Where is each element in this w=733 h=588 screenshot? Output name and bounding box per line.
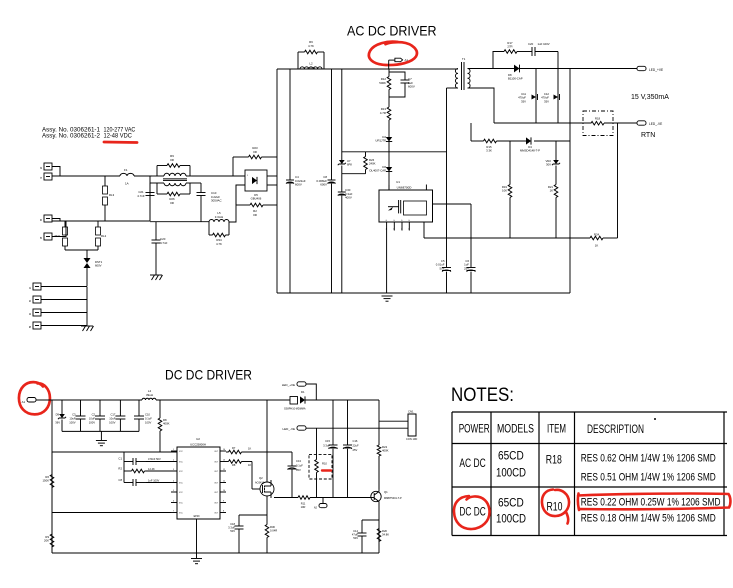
svg-text:MODELS: MODELS: [497, 424, 534, 436]
wire bottom rail: [52, 552, 379, 554]
svg-text:RV1: RV1: [55, 234, 61, 238]
svg-text:ITEM: ITEM: [547, 424, 566, 436]
wire top rail: [277, 68, 458, 70]
wire vertical x342: [341, 69, 343, 160]
wire led- line: [306, 427, 408, 429]
resistor R2 12.4K: [123, 462, 125, 472]
svg-text:UCC25800H: UCC25800H: [190, 443, 206, 447]
capacitor C18 3.3uF 50V: [239, 514, 267, 516]
wire left rail: [51, 400, 53, 553]
wire secondary to D8: [468, 68, 515, 70]
wire mid horizontal: [423, 222, 425, 238]
svg-text:RL2: RL2: [101, 234, 107, 238]
wire cn1 upper: [379, 420, 408, 422]
wire live input: [52, 175, 120, 177]
svg-text:0R: 0R: [170, 201, 174, 205]
wire output positive: [520, 68, 638, 70]
svg-text:C3: C3: [72, 412, 76, 416]
svg-text:SS8PH10-MDMMA: SS8PH10-MDMMA: [284, 408, 306, 411]
wire cap bank bottom: [62, 430, 139, 432]
capacitor C2 10uF 100V: [99, 400, 101, 416]
resistor R6 4.7K: [297, 52, 299, 69]
connector CN1: [408, 414, 416, 436]
wire neutral after choke: [192, 182, 201, 184]
terminal I8: [33, 322, 41, 329]
svg-text:4: 4: [408, 229, 409, 231]
wire gate: [251, 462, 253, 490]
svg-text:1nF 100V: 1nF 100V: [148, 479, 160, 483]
svg-text:305VAC: 305VAC: [211, 199, 222, 203]
wire neutral to choke: [149, 183, 151, 221]
capacitor C14 47uF 50V: [362, 519, 379, 521]
resistor R23 0R: [232, 157, 234, 176]
svg-text:600V: 600V: [320, 183, 327, 187]
resistor R12 500K: [388, 69, 390, 76]
svg-text:10K: 10K: [502, 189, 507, 193]
svg-text:C2: C2: [92, 412, 96, 416]
svg-text:RL3: RL3: [109, 193, 115, 197]
svg-text:POWER: POWER: [459, 424, 490, 436]
svg-text:LED_+VE: LED_+VE: [282, 383, 295, 387]
svg-text:0R: 0R: [253, 213, 257, 217]
U2 pin stubs: [171, 450, 177, 452]
svg-text:R20: R20: [382, 529, 387, 533]
wire U1 right pin: [433, 203, 472, 205]
wire right vertical: [569, 69, 571, 294]
resistor RL2: [97, 221, 99, 227]
svg-text:AC DC DRIVER: AC DC DRIVER: [347, 23, 437, 39]
red annotation circle around terminal A1 input: [19, 382, 50, 414]
wire led+ to rail: [306, 384, 316, 400]
svg-text:C20: C20: [528, 42, 534, 46]
svg-text:LED_-VE: LED_-VE: [282, 427, 295, 431]
terminal I2: [33, 296, 41, 303]
svg-text:4: 4: [401, 229, 402, 231]
red annotation mark under R10: [322, 469, 331, 471]
svg-text:0R: 0R: [170, 158, 174, 162]
svg-text:600V: 600V: [295, 183, 302, 187]
wire fb row: [52, 512, 171, 514]
svg-text:100V: 100V: [145, 420, 151, 424]
svg-text:DC DC DRIVER: DC DC DRIVER: [165, 367, 252, 383]
svg-text:3: 3: [173, 469, 174, 471]
terminal A1 input: [27, 398, 36, 403]
capacitor C30 3.3uF 400V: [338, 191, 346, 193]
svg-text:A2: A2: [314, 506, 318, 510]
svg-text:4.7K: 4.7K: [216, 242, 222, 246]
svg-text:100V: 100V: [89, 420, 95, 424]
wire Q1 base: [371, 497, 374, 499]
resistor R26 0R bypass: [156, 183, 158, 194]
resistor R8b 1K: [226, 461, 228, 463]
svg-text:LED_-VE: LED_-VE: [649, 122, 662, 126]
svg-text:CN1: CN1: [408, 410, 414, 414]
svg-text:35V: 35V: [296, 468, 301, 472]
wire r7 row: [226, 451, 228, 453]
terminal I4: [33, 309, 41, 316]
zener D9 36V: [61, 400, 63, 414]
svg-text:600V: 600V: [408, 85, 415, 89]
opto diode U7 6P8: [339, 160, 345, 164]
diode D2 UR1JTP: [386, 137, 392, 142]
svg-text:47uF: 47uF: [352, 533, 358, 537]
capacitor C21 4.7nF: [149, 176, 151, 193]
capacitor C13 0.1uF 35V: [291, 452, 293, 466]
svg-text:R11: R11: [301, 502, 306, 506]
wire neutral y222: [150, 221, 209, 223]
svg-text:R18: R18: [546, 455, 562, 467]
wire rail to right: [305, 399, 379, 401]
resistor R26 240K: [365, 152, 367, 156]
capacitor C8 0.068uF 600V: [331, 69, 333, 180]
svg-text:27R: 27R: [507, 45, 512, 49]
svg-text:10uF: 10uF: [109, 416, 115, 420]
svg-text:4.7K: 4.7K: [308, 44, 314, 48]
dashed box around R10: [309, 454, 332, 479]
diode D6 DL4007: [386, 167, 392, 172]
svg-text:8: 8: [223, 511, 224, 513]
svg-text:T1: T1: [462, 57, 466, 61]
svg-text:AO3416: AO3416: [255, 482, 265, 485]
svg-text:100V: 100V: [69, 420, 75, 424]
svg-text:Assy. No. 0306261-2: Assy. No. 0306261-2: [42, 132, 100, 139]
svg-text:5: 5: [173, 490, 174, 492]
svg-text:35V: 35V: [521, 99, 526, 103]
wire RTN feedback: [617, 123, 619, 238]
svg-text:25V: 25V: [464, 266, 469, 270]
svg-text:4: 4: [173, 481, 174, 483]
svg-text:C1: C1: [118, 457, 122, 461]
ground cap bank: [100, 431, 102, 440]
svg-text:RES 0.62 OHM 1/4W 1% 1206 SMD: RES 0.62 OHM 1/4W 1% 1206 SMD: [581, 453, 716, 465]
svg-text:10: 10: [223, 490, 225, 492]
wire VR2 branch: [555, 141, 557, 160]
resistor R13 4.7R: [387, 107, 391, 120]
svg-text:13: 13: [223, 460, 225, 462]
ground U1: [382, 295, 393, 297]
choke L1 winding bottom: [150, 182, 164, 184]
svg-text:R10: R10: [322, 462, 327, 466]
terminal A2: [322, 498, 324, 504]
wire neutral to bridge: [229, 185, 245, 222]
svg-text:400V: 400V: [345, 196, 352, 200]
wire bridge outputs: [267, 175, 277, 177]
svg-text:DESCRIPTION: DESCRIPTION: [587, 424, 644, 436]
wire opto loop bottom: [342, 173, 366, 175]
terminal I3: [44, 163, 52, 170]
wire primary return: [446, 88, 448, 268]
svg-text:LED_+VE: LED_+VE: [649, 68, 663, 72]
svg-text:9: 9: [223, 501, 224, 503]
svg-text:4: 4: [393, 229, 394, 231]
terminal I6: [44, 215, 52, 222]
svg-text:R18: R18: [595, 117, 601, 121]
svg-text:22uF: 22uF: [353, 444, 359, 448]
diode D4 MMSD4148: [526, 137, 531, 144]
svg-text:1: 1: [173, 449, 174, 451]
svg-text:0.04R: 0.04R: [270, 529, 277, 533]
svg-text:R8: R8: [232, 463, 236, 467]
svg-text:U7: U7: [347, 159, 351, 163]
capacitor C15 3.3uF: [329, 444, 338, 446]
capacitor C20 4.7nF: [155, 222, 157, 240]
svg-text:D1: D1: [301, 390, 305, 394]
svg-text:400K: 400K: [163, 422, 170, 426]
wire earth bus: [41, 286, 87, 288]
wire terminal I5 to neutral: [52, 221, 66, 237]
U1 bottom pins: [386, 222, 388, 231]
zener VR2 30V: [553, 160, 559, 164]
svg-text:50V: 50V: [440, 266, 445, 270]
inductor L4 39uH: [142, 398, 156, 400]
ground C20: [150, 274, 162, 276]
ground U2: [196, 519, 198, 558]
resistor R15 3.3K: [482, 140, 485, 142]
resistor R9 20K: [51, 488, 53, 534]
svg-text:F1: F1: [124, 168, 128, 172]
svg-text:500K: 500K: [379, 81, 386, 85]
svg-text:C15: C15: [325, 439, 330, 443]
red underline annotation under 12-48 VDC: [104, 141, 137, 144]
svg-text:39uH: 39uH: [146, 393, 153, 397]
red annotation box around RES 0.22 row: [578, 494, 730, 511]
svg-text:12-48 VDC: 12-48 VDC: [104, 132, 133, 139]
resistor R21 1K: [555, 183, 557, 186]
svg-text:R7: R7: [232, 446, 236, 450]
wire vcc row: [52, 451, 177, 453]
svg-text:150K: 150K: [42, 479, 49, 483]
snubber capacitor C20 1uF 100V: [517, 51, 532, 53]
wire primary bottom: [447, 87, 459, 89]
svg-text:R2: R2: [118, 467, 122, 471]
svg-text:EP49: EP49: [194, 515, 201, 518]
svg-text:C14: C14: [353, 529, 358, 533]
terminal I7: [44, 173, 52, 180]
resistor R10: [316, 428, 318, 459]
resistor R11 10R: [298, 496, 310, 500]
transistor Q1 MMBT5401: [371, 491, 381, 501]
svg-text:10uF: 10uF: [69, 416, 75, 420]
transformer T1 core: [461, 62, 463, 90]
wire secondary bottom: [468, 88, 495, 123]
svg-text:6: 6: [173, 501, 174, 503]
svg-text:2: 2: [173, 460, 174, 462]
svg-text:A1: A1: [22, 400, 26, 404]
controller U1 UN68700D: [379, 190, 433, 222]
wire clamp line: [342, 151, 447, 153]
svg-text:C10: C10: [145, 412, 150, 416]
svg-text:CON 10D: CON 10D: [406, 437, 417, 441]
svg-text:DL4007-CAP: DL4007-CAP: [370, 169, 387, 173]
wire Q1 collector emitter: [378, 456, 380, 492]
table grid: [452, 411, 727, 413]
svg-text:6P8: 6P8: [347, 163, 352, 167]
svg-text:AC DC: AC DC: [459, 458, 485, 470]
wire neutral input: [52, 220, 150, 222]
choke L1 winding top: [152, 175, 164, 177]
wire feedback: [471, 140, 483, 142]
output diode D8 B1100: [514, 65, 520, 73]
terminal LED_-VE dc: [297, 426, 306, 430]
svg-text:R30: R30: [270, 525, 275, 529]
wire terminal I6 to neutral: [52, 219, 60, 222]
inductor L5 3.3mH: [209, 220, 229, 223]
wire Q2 drain: [266, 400, 268, 482]
svg-text:34.8K: 34.8K: [382, 533, 389, 537]
svg-text:1K: 1K: [595, 244, 599, 248]
controller U2: [177, 447, 220, 519]
capacitor C7 1uF 600V: [389, 72, 405, 80]
svg-text:RES 0.22 OHM 0.25W 1% 1206 SMD: RES 0.22 OHM 0.25W 1% 1206 SMD: [581, 497, 721, 509]
wire right rail: [378, 400, 380, 445]
svg-text:4: 4: [386, 229, 387, 231]
svg-text:A1: A1: [405, 58, 409, 62]
wire RV1 RL2 junction: [65, 249, 98, 251]
svg-text:1uF 100V: 1uF 100V: [538, 42, 550, 46]
U1 top pin stub: [425, 185, 427, 191]
capacitor C5 0.01uF 50V: [442, 267, 451, 269]
capacitor C6 1uF 25V: [470, 204, 472, 268]
svg-text:4.7nF: 4.7nF: [160, 241, 168, 245]
svg-text:1K: 1K: [248, 447, 251, 451]
capacitor C10 0.1uF 100V: [138, 400, 140, 416]
capacitor C3 10uF 100V: [80, 400, 82, 416]
wire Q2 source: [266, 496, 268, 524]
wire mid vertical C16: [347, 400, 349, 445]
resistor R30 0.04R: [266, 523, 268, 526]
wire mid vertical C15: [332, 400, 334, 445]
bridge rectifier D5: [245, 170, 267, 191]
surge arrester DST1 600V: [84, 258, 91, 263]
svg-text:3.3uF: 3.3uF: [323, 444, 330, 448]
capacitor C1 470nF 50V: [123, 452, 125, 462]
ground earth: [81, 325, 93, 327]
svg-text:UN68700D: UN68700D: [397, 186, 413, 190]
svg-text:3.3mH: 3.3mH: [307, 66, 316, 70]
svg-text:65CD: 65CD: [498, 450, 524, 462]
svg-text:0.1uF: 0.1uF: [296, 464, 303, 468]
capacitor C16 22uF 25V: [343, 444, 352, 446]
varistor RV1: [64, 221, 66, 227]
terminal I1: [33, 283, 41, 290]
wire output return: [494, 122, 591, 124]
svg-text:U1: U1: [396, 180, 400, 184]
svg-text:10uF: 10uF: [89, 416, 95, 420]
svg-text:600V: 600V: [95, 264, 102, 268]
svg-text:3.3K: 3.3K: [486, 149, 492, 153]
svg-text:14: 14: [223, 449, 225, 451]
svg-text:100CD: 100CD: [496, 514, 526, 526]
svg-text:20K: 20K: [44, 539, 49, 543]
mosfet Q2 AO3416: [260, 482, 274, 496]
svg-text:36V: 36V: [55, 421, 60, 425]
svg-text:50V: 50V: [230, 529, 235, 533]
fuse F1: [120, 173, 134, 176]
svg-text:11: 11: [223, 481, 225, 483]
svg-text:C13: C13: [296, 459, 301, 463]
wire terminal I3 to live: [52, 167, 60, 177]
wire left rail: [276, 69, 278, 293]
svg-text:Q2: Q2: [259, 476, 263, 480]
transformer T1 secondary: [468, 69, 471, 89]
svg-text:R24: R24: [594, 233, 600, 237]
svg-text:C8: C8: [118, 478, 122, 482]
capacitor C17 10uF 100V: [119, 400, 121, 416]
resistor R18 with dashed box: [583, 111, 613, 136]
svg-text:R10: R10: [547, 502, 563, 514]
terminal LED_+VE output: [637, 66, 646, 70]
resistor R34 4.7K bypass: [208, 222, 210, 235]
wire R19 branch: [509, 141, 511, 184]
resistor RL3: [104, 176, 106, 186]
svg-text:Q1: Q1: [384, 490, 388, 494]
wire live after choke: [192, 175, 245, 177]
svg-text:240K: 240K: [369, 162, 376, 166]
resistor R9 0R bypass: [156, 166, 158, 177]
inductor L2 3.3mH: [300, 67, 322, 69]
capacitor C4 0.022uF 600V: [289, 69, 291, 180]
feedback tap: [470, 123, 472, 141]
choke L1 core: [163, 178, 187, 180]
capacitor C11 470uF 35V: [535, 69, 537, 124]
wire live to choke: [134, 175, 152, 177]
svg-text:1A: 1A: [125, 182, 129, 186]
resistor R7 1K: [227, 451, 230, 453]
diode D1 with body: [290, 397, 298, 405]
svg-text:RTN: RTN: [641, 132, 655, 139]
resistor R19 10K: [509, 183, 511, 186]
svg-text:7: 7: [173, 511, 174, 513]
capacitor C10 0.22uF 305VAC: [200, 183, 202, 193]
svg-text:C16: C16: [353, 439, 358, 443]
svg-text:C18: C18: [230, 522, 235, 526]
svg-text:GBU406: GBU406: [251, 197, 262, 201]
resistor R24 1K: [590, 236, 603, 240]
svg-text:12: 12: [223, 469, 225, 471]
svg-text:MMBT5401-T-P: MMBT5401-T-P: [384, 497, 402, 500]
jumper A1: [388, 60, 390, 69]
capacitor C8 1nF 100V: [123, 471, 125, 483]
svg-text:D9: D9: [56, 412, 60, 416]
red annotation ellipse around jumper A1: [369, 42, 417, 65]
svg-text:RES 0.18 OHM 1/4W 5% 1206 SMD: RES 0.18 OHM 1/4W 5% 1206 SMD: [581, 513, 716, 525]
wire sense row: [274, 497, 298, 499]
svg-text:DC DC: DC DC: [459, 506, 485, 518]
red annotation ellipse around DC DC: [454, 496, 490, 529]
svg-text:L2: L2: [309, 62, 313, 66]
snubber R17 27R: [493, 52, 504, 69]
svg-text:4.7R: 4.7R: [380, 111, 386, 115]
transformer T1 primary: [455, 69, 458, 89]
svg-text:400K: 400K: [382, 449, 389, 453]
svg-text:100CD: 100CD: [496, 467, 526, 479]
svg-text:4.7nF: 4.7nF: [137, 194, 145, 198]
capacitor C12 470uF 35V: [557, 52, 559, 124]
svg-text:1K: 1K: [248, 463, 251, 467]
svg-text:MMSD4148-T-P: MMSD4148-T-P: [520, 149, 540, 153]
terminal LED_+VE dc: [297, 382, 306, 386]
svg-text:C17: C17: [110, 412, 115, 416]
red annotation ellipse around R10: [542, 490, 569, 524]
svg-text:10R: 10R: [301, 505, 306, 509]
resistor R22 400K: [377, 445, 381, 456]
svg-text:100V: 100V: [109, 420, 115, 424]
svg-text:NOTES:: NOTES:: [451, 385, 514, 406]
svg-text:30V: 30V: [546, 163, 551, 167]
svg-text:65CD: 65CD: [498, 498, 524, 510]
resistor R6 150K: [51, 452, 53, 474]
svg-text:B1100-CAP: B1100-CAP: [508, 77, 523, 81]
